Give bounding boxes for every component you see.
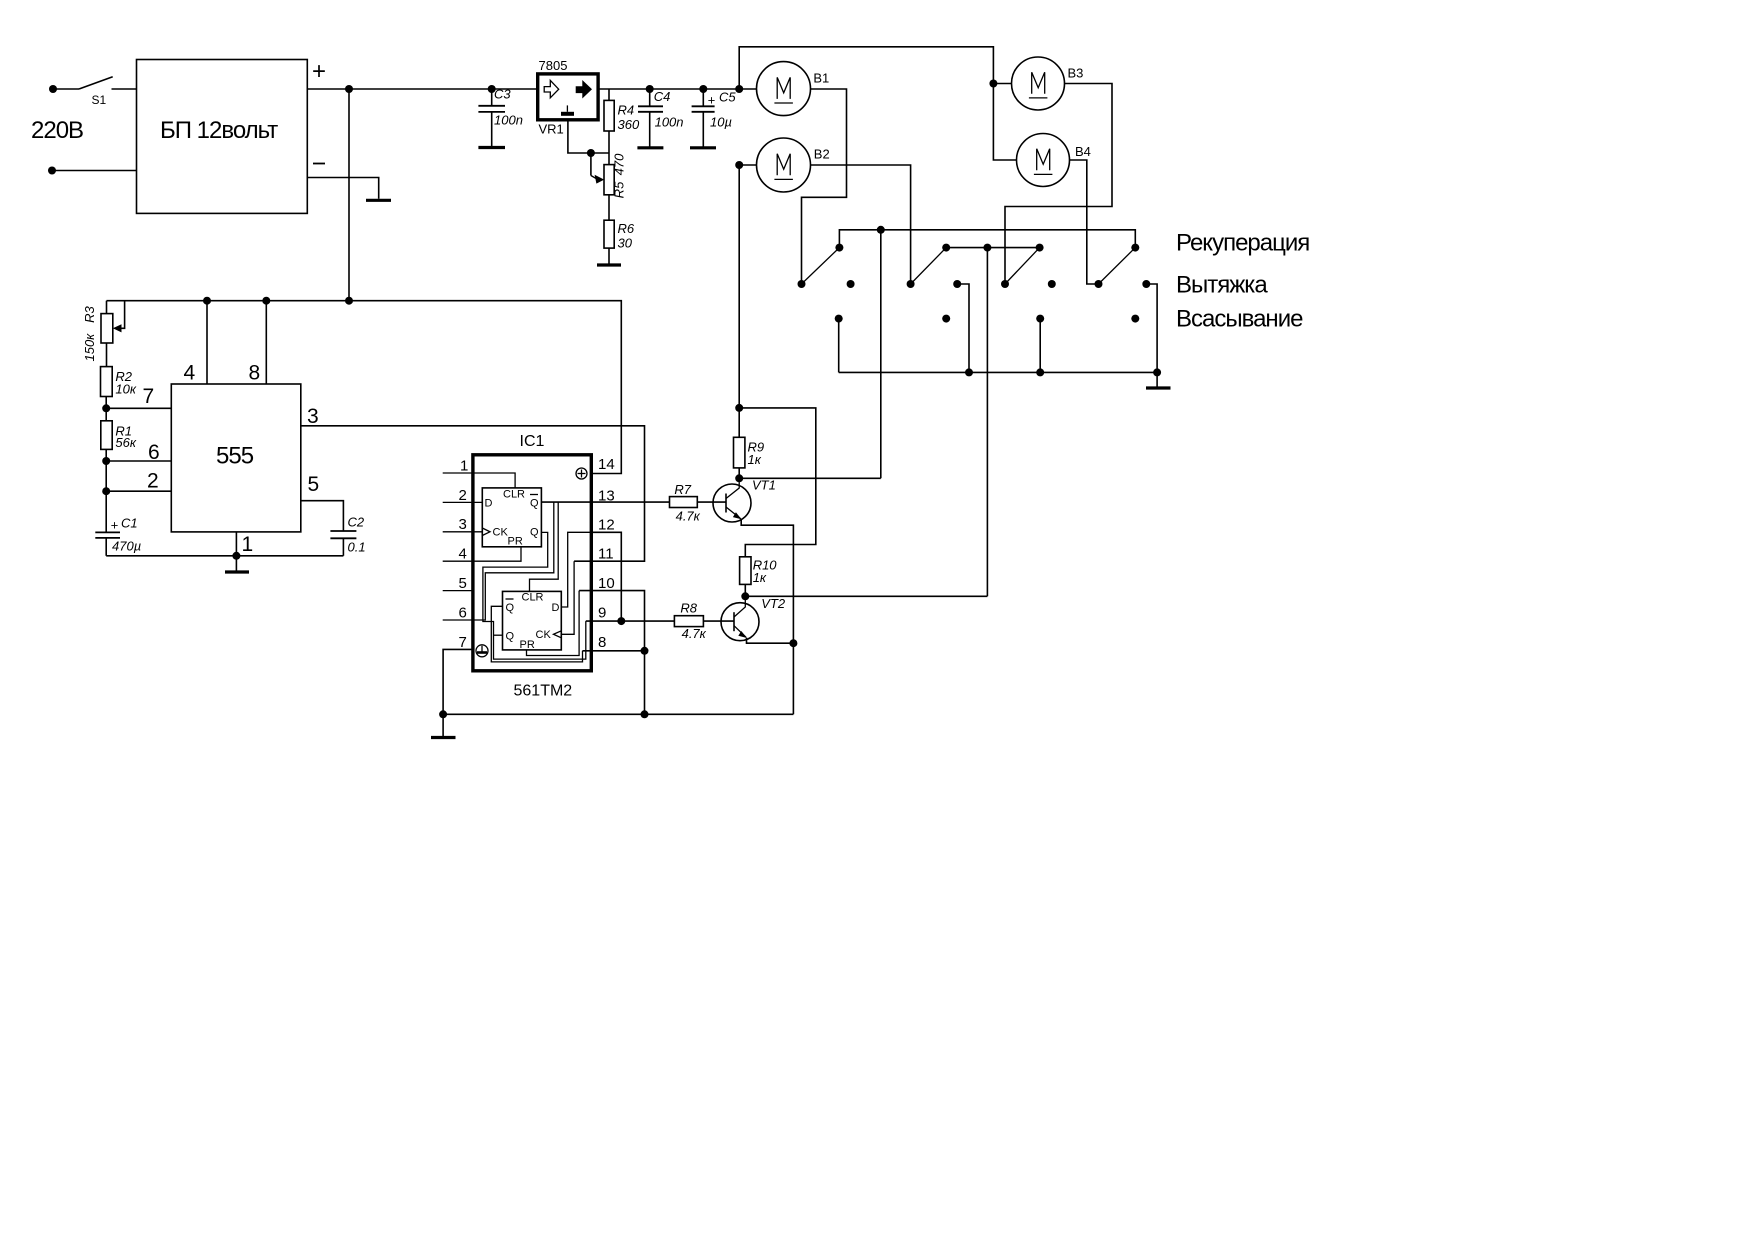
svg-text:10: 10 (598, 575, 615, 592)
wire B1 to switch1 pole (802, 89, 847, 284)
svg-text:3: 3 (307, 405, 319, 428)
svg-text:БП 12вольт: БП 12вольт (160, 117, 278, 144)
svg-text:VT1: VT1 (752, 478, 776, 493)
capacitor C2 (330, 531, 356, 556)
wire bottom contact 3 down (1039, 319, 1041, 373)
node pole 3 (1001, 280, 1009, 288)
switch arm 4 (1099, 248, 1136, 284)
node top contact mid (983, 244, 991, 252)
svg-text:0.1: 0.1 (348, 540, 366, 555)
resistor R6 (604, 220, 614, 263)
svg-text:+: + (708, 93, 716, 108)
svg-text:B2: B2 (814, 147, 830, 162)
node mid contact 2b (953, 280, 961, 288)
svg-text:30: 30 (618, 236, 633, 251)
wire top contacts link (946, 247, 1039, 249)
wire (53, 88, 79, 90)
wire VT1 collector to switch bus (739, 477, 881, 479)
node rail dot pin8 (262, 297, 270, 305)
wire pin10 external down to ground (579, 591, 644, 715)
wire 555 pin4 (206, 301, 208, 384)
svg-text:1: 1 (460, 458, 468, 475)
svg-text:B4: B4 (1075, 144, 1091, 159)
svg-text:R7: R7 (674, 482, 691, 497)
wire (112, 88, 137, 90)
resistor R5 potentiometer (604, 165, 614, 221)
node 220V input bottom terminal (48, 167, 56, 175)
svg-text:2: 2 (147, 470, 159, 493)
power supply block BP 12volt (137, 60, 308, 214)
wire 555 pin1 (235, 532, 237, 556)
node pin9 pin12 join (617, 617, 625, 625)
svg-text:C3: C3 (494, 87, 511, 102)
svg-text:PR: PR (520, 639, 535, 651)
svg-text:6: 6 (148, 441, 160, 464)
node R9 R10 branch (735, 404, 743, 412)
svg-text:Q: Q (506, 602, 515, 614)
wire VT2 emitter (747, 638, 794, 644)
flip-flop FF2 (503, 591, 562, 650)
svg-text:+: + (111, 518, 119, 533)
svg-text:5: 5 (308, 473, 320, 496)
potentiometer R3 (101, 301, 125, 367)
svg-text:10к: 10к (115, 382, 136, 397)
node top contact 2 (942, 244, 950, 252)
svg-text:+: + (312, 58, 325, 85)
svg-text:B3: B3 (1068, 66, 1084, 81)
wire bottom ground run (443, 713, 793, 715)
resistor R7 (541, 497, 726, 508)
switch arm 1 (802, 248, 840, 284)
node pole 4 (1095, 280, 1103, 288)
svg-text:12: 12 (598, 516, 615, 533)
svg-text:Q: Q (530, 498, 539, 510)
svg-text:D: D (552, 602, 560, 614)
wire 555 pin5 to C2 (301, 501, 344, 531)
wire (52, 170, 137, 172)
node pin2 (102, 487, 110, 495)
wire pin6 stub (443, 619, 473, 621)
svg-text:13: 13 (598, 487, 615, 504)
node rail dot main (345, 297, 353, 305)
wire bottom bus (839, 371, 1157, 373)
switch arm 2 (911, 248, 947, 284)
ground (442, 714, 444, 736)
wire 555 pin8 (265, 301, 267, 384)
node bus tap (877, 226, 885, 234)
svg-text:C5: C5 (719, 90, 736, 105)
node pole 1 (798, 280, 806, 288)
svg-text:14: 14 (598, 456, 615, 473)
wire B4 to switch4 pole (1070, 160, 1099, 284)
wire +12V rail (307, 88, 537, 90)
capacitor C3 (478, 85, 505, 146)
svg-text:1к: 1к (753, 570, 767, 585)
svg-text:R6: R6 (618, 221, 635, 236)
node bottom contact 4 (1131, 315, 1139, 323)
node VT1 collector (735, 474, 743, 482)
switch S1 lever (79, 77, 113, 89)
transistor VT1 (713, 478, 751, 522)
timer 555 box (171, 384, 300, 532)
svg-text:CK: CK (493, 527, 509, 539)
capacitor C1 (95, 532, 120, 555)
resistor R8 (586, 616, 734, 627)
node bus dot c (1153, 368, 1161, 376)
ground (478, 146, 505, 149)
wire pin1 stub to FF1 CLR (443, 473, 515, 488)
node bus dot a (965, 368, 973, 376)
wire FF1 Q route to pin9 (483, 532, 586, 659)
node rail junction B-feed (735, 85, 743, 93)
node pole 2 (907, 280, 915, 288)
node rail dot pin4 (203, 297, 211, 305)
svg-text:220В: 220В (31, 117, 83, 144)
resistor R1 (101, 421, 112, 533)
wire B2 to switch2 pole (811, 165, 911, 284)
wire 555 pin6 (106, 460, 171, 462)
wire minus output (307, 178, 378, 199)
motor B1 (757, 62, 811, 116)
svg-text:11: 11 (598, 546, 614, 563)
node mid contact 3b (1048, 280, 1056, 288)
switch arm 3 (1005, 248, 1040, 284)
svg-text:S1: S1 (92, 93, 107, 107)
node mid contact 4b (1142, 280, 1150, 288)
wire 555 ground run (106, 555, 343, 557)
node rail junction (345, 85, 353, 93)
wire VT1 emitter run (741, 519, 793, 714)
svg-text:4.7к: 4.7к (676, 509, 701, 524)
svg-text:VT2: VT2 (761, 596, 786, 611)
node bottom contact 2 (942, 315, 950, 323)
svg-text:VR1: VR1 (539, 122, 564, 137)
symbol vdd circle-plus (576, 468, 587, 479)
wire 555 pin7 (106, 407, 171, 409)
ground (690, 146, 716, 149)
wire VT2 collector to switch contact (745, 595, 987, 597)
wire switch top bus (839, 230, 1135, 248)
svg-text:D: D (485, 498, 493, 510)
svg-text:8: 8 (598, 634, 606, 651)
svg-text:360: 360 (618, 117, 640, 132)
wire FF2 CK to pin11 (561, 561, 574, 634)
svg-text:4: 4 (459, 546, 467, 563)
node gnd left (439, 710, 447, 718)
svg-text:R8: R8 (680, 601, 697, 616)
transistor VT2 (721, 596, 759, 640)
svg-text:IC1: IC1 (520, 433, 545, 450)
svg-text:CK: CK (536, 629, 552, 641)
svg-text:Всасывание: Всасывание (1176, 306, 1303, 333)
wire FF2 D to pin12 (561, 532, 591, 607)
wire pin4 stub to FF1 PR (443, 547, 521, 561)
svg-text:555: 555 (216, 443, 254, 470)
node gnd mid (641, 710, 649, 718)
svg-text:PR: PR (508, 536, 523, 548)
regulator VR1 7805 (538, 74, 598, 120)
svg-text:7: 7 (459, 634, 467, 651)
wire pin12 external to pin9 (591, 532, 621, 621)
wire B2 left (739, 164, 756, 166)
wire +12 down to R9 (738, 165, 740, 408)
resistor R4 (604, 89, 614, 165)
motor B4 (1017, 134, 1070, 187)
svg-text:1: 1 (242, 533, 254, 556)
wire bus tap down to VT1 collector (880, 230, 882, 478)
wire bottom contact 1 down (838, 319, 840, 373)
ground (235, 556, 237, 571)
node top contact 3 (1036, 244, 1044, 252)
node 220V input top terminal (49, 85, 57, 93)
svg-text:B1: B1 (813, 71, 829, 86)
svg-text:7805: 7805 (539, 58, 568, 73)
wire mid contact 4b to bottom bus (1146, 284, 1157, 372)
svg-text:3: 3 (459, 516, 467, 533)
node pin8 join (641, 647, 649, 655)
wire 555 pin3 output to IC pin11 (301, 426, 645, 561)
ground (366, 199, 391, 202)
wire FF1 Qbar branch to pin6 (473, 502, 554, 620)
wire 7805 gnd pin (568, 120, 609, 153)
label minus (313, 163, 325, 165)
node top contact 4 (1131, 244, 1139, 252)
svg-text:R4: R4 (618, 103, 635, 118)
ground (637, 146, 663, 149)
svg-text:R3: R3 (82, 306, 97, 323)
svg-text:7: 7 (143, 385, 155, 408)
wire pin3 stub to FF1 CK (443, 531, 483, 533)
node mid contact 1b (847, 280, 855, 288)
capacitor C5 (692, 85, 715, 147)
node bottom contact 3 (1036, 315, 1044, 323)
resistor R9 (734, 408, 745, 478)
wire pin8 stub (583, 650, 645, 652)
node top contact 1 (835, 244, 843, 252)
svg-text:100n: 100n (655, 115, 684, 130)
node bus dot b (1036, 368, 1044, 376)
svg-text:10µ: 10µ (710, 115, 732, 130)
svg-text:Вытяжка: Вытяжка (1176, 272, 1268, 299)
wire B3 to switch3 pole (1005, 84, 1112, 285)
svg-text:4.7к: 4.7к (682, 626, 707, 641)
svg-text:CLR: CLR (522, 592, 544, 604)
node pin6 (102, 457, 110, 465)
node (587, 149, 595, 157)
svg-text:5: 5 (459, 575, 467, 592)
wire mid contact 2b to bottom bus (957, 284, 969, 372)
svg-text:2: 2 (459, 487, 467, 504)
node pin1 gnd (232, 552, 240, 560)
wire pin7 to ground (443, 649, 473, 714)
capacitor C4 (638, 85, 663, 147)
wire +12V drop to lower rail (348, 89, 350, 301)
svg-text:C1: C1 (121, 516, 138, 531)
wire R5 wiper (590, 153, 592, 176)
svg-text:1к: 1к (748, 452, 762, 467)
node B2 tap (735, 161, 743, 169)
node VT2 collector (741, 592, 749, 600)
wire pin5 stub (443, 590, 473, 592)
wire 555 pin2 (106, 490, 171, 492)
svg-text:8: 8 (249, 362, 261, 385)
wire FF2 PR to pin10 (527, 591, 580, 656)
svg-text:C4: C4 (654, 89, 671, 104)
svg-text:Q: Q (506, 631, 515, 643)
motor B2 (757, 138, 811, 192)
svg-text:CLR: CLR (503, 489, 525, 501)
node bottom contact 1 (835, 315, 843, 323)
motor B3 (1012, 57, 1065, 110)
resistor R2 (101, 367, 113, 421)
svg-text:Q: Q (530, 527, 539, 539)
wire pin2 stub to FF1 D (443, 501, 483, 503)
wire feed to B3 B4 (739, 47, 1016, 160)
symbol earth circle (476, 645, 488, 657)
wire FF1 Qbar branch to FF2 CLR (530, 502, 559, 591)
svg-text:C2: C2 (348, 515, 365, 530)
wire contact down to VT2 collector (986, 248, 988, 597)
svg-text:561ТМ2: 561ТМ2 (514, 683, 573, 700)
node pin7 (102, 404, 110, 412)
node emitter join (789, 639, 797, 647)
wire lower +12 rail (107, 301, 622, 474)
svg-text:100n: 100n (494, 113, 523, 128)
wire branch to R10 (739, 408, 816, 557)
wire FF2 Q stub (494, 634, 503, 636)
svg-text:56к: 56к (115, 435, 136, 450)
svg-text:9: 9 (598, 605, 606, 622)
svg-text:Рекуперация: Рекуперация (1176, 230, 1309, 257)
ground (1156, 372, 1158, 387)
node B3 tap (989, 80, 997, 88)
svg-text:R5: R5 (612, 181, 627, 198)
svg-text:4: 4 (184, 362, 196, 385)
wire FF2 Qbar route to pin8 (491, 606, 582, 662)
svg-text:470µ: 470µ (112, 539, 141, 554)
flip-flop FF1 (482, 488, 541, 547)
svg-text:150к: 150к (82, 333, 97, 362)
ground (597, 263, 621, 266)
resistor R10 (740, 557, 751, 597)
svg-text:470: 470 (612, 153, 627, 175)
svg-text:6: 6 (459, 604, 467, 621)
wire B3 left (993, 83, 1011, 85)
IC1 box 561TM2 (473, 455, 591, 671)
